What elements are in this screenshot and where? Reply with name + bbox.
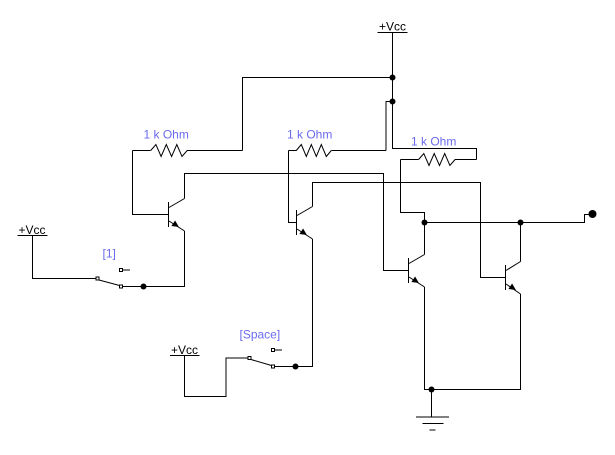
wire Vcc to J1 pivot — [33, 236, 97, 279]
wire R2 right lead up to Vcc node 2 — [386, 102, 393, 151]
wire Q1 collector to Q3 base — [185, 174, 409, 271]
switch J2 key [Space] — [240, 328, 283, 369]
wire node1 to node2 — [392, 78, 394, 102]
wire Q3 emitter down to ground node — [425, 287, 432, 390]
power +Vcc top — [378, 20, 408, 34]
resistor R1 1 k Ohm — [133, 128, 243, 157]
power +Vcc for switch J2 — [170, 343, 200, 357]
wire R3 left lead down to output node — [401, 160, 425, 223]
transistor Q4 — [506, 262, 521, 295]
ground symbol — [416, 390, 449, 431]
wire Vcc to J2 pivot — [185, 356, 249, 397]
switch J1 key [1] — [96, 247, 130, 289]
node switch J1 output dot — [141, 284, 147, 290]
svg-text:[Space]: [Space] — [240, 328, 281, 342]
wire output bus to terminal — [425, 215, 590, 223]
wire Q1 emitter down to switch J1 — [123, 231, 185, 287]
svg-text:1 k Ohm: 1 k Ohm — [411, 135, 456, 149]
svg-text:1 k Ohm: 1 k Ohm — [287, 128, 332, 142]
node Vcc junction 2 — [390, 99, 396, 105]
resistor R2 1 k Ohm — [287, 128, 386, 157]
node Vcc junction 1 — [390, 75, 396, 81]
transistor Q1 — [169, 199, 185, 232]
resistor R3 1 k Ohm — [401, 135, 477, 166]
svg-text:+Vcc: +Vcc — [379, 20, 406, 34]
wire Q4 emitter down to ground node — [432, 294, 521, 390]
wire Vcc node 2 down to R3 right lead — [393, 102, 477, 160]
wire Q2 collector to Q4 base — [313, 183, 506, 278]
node Q4 collector junction — [518, 220, 524, 226]
svg-text:+Vcc: +Vcc — [19, 223, 46, 237]
transistor Q2 — [297, 207, 313, 240]
node ground junction — [429, 387, 435, 393]
wire Q4 collector up to node — [520, 223, 522, 262]
wire R2 left lead down to Q2 base — [289, 151, 297, 223]
node Q3 collector junction — [422, 220, 428, 226]
wire R1 left lead down to Q1 base — [133, 151, 169, 215]
wire Q3 collector up to node — [424, 223, 426, 255]
wire R1 right lead up to Vcc node — [243, 78, 393, 151]
node switch J2 output dot — [293, 364, 299, 370]
wire Q2 emitter down to switch J2 — [275, 239, 313, 367]
svg-text:+Vcc: +Vcc — [171, 343, 198, 357]
svg-text:[1]: [1] — [103, 247, 116, 261]
power +Vcc for switch J1 — [18, 223, 48, 237]
wire Vcc stem to node — [392, 33, 394, 78]
svg-text:1 k Ohm: 1 k Ohm — [144, 128, 189, 142]
transistor Q3 — [409, 255, 425, 288]
node output terminal — [589, 210, 597, 218]
